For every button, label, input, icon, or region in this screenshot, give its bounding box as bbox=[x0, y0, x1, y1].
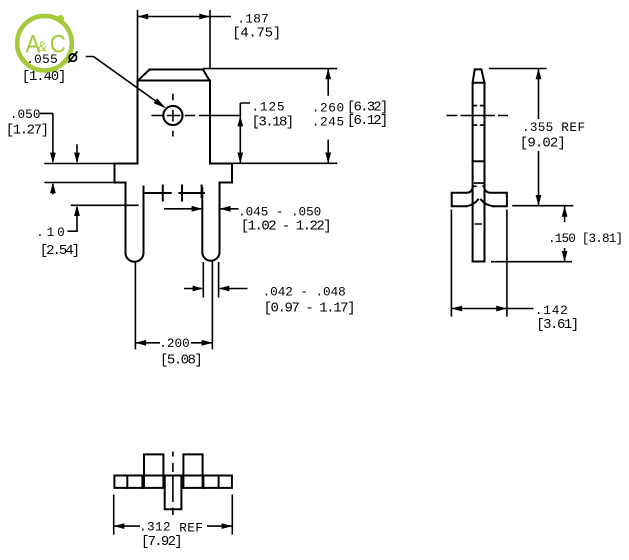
svg-text:.042 - .048: .042 - .048 bbox=[263, 285, 346, 300]
svg-text:.150 [3.81]: .150 [3.81] bbox=[548, 231, 622, 246]
side flange inner curves bbox=[467, 200, 493, 207]
svg-text:[2.54]: [2.54] bbox=[40, 243, 78, 259]
front view right leg bbox=[202, 183, 219, 261]
bend tick marks between legs bbox=[144, 186, 204, 201]
dim .150 line bbox=[564, 206, 566, 262]
arrowhead dim .187 right bbox=[199, 14, 210, 20]
dim .200 extensions bbox=[135, 262, 212, 350]
A&C logo bbox=[17, 15, 72, 71]
side body bend line bbox=[473, 160, 485, 162]
svg-text:.260: .260 bbox=[312, 100, 345, 115]
hole circle bbox=[163, 106, 182, 125]
arrowhead dim .200 left bbox=[135, 340, 146, 346]
arrowhead dim .045-.050 right bbox=[220, 206, 231, 212]
svg-text:REF: REF bbox=[561, 120, 585, 135]
svg-text:[0.97 - 1.17]: [0.97 - 1.17] bbox=[264, 301, 355, 317]
svg-text:.125: .125 bbox=[251, 99, 285, 114]
svg-text:.312: .312 bbox=[139, 520, 171, 535]
dim .187 extension lines bbox=[138, 10, 211, 80]
arrowhead dim .355 top bbox=[536, 69, 542, 80]
centerline through side view bbox=[447, 115, 509, 117]
arrowhead dim .150 top bbox=[562, 206, 568, 217]
arrowhead dim .142 left bbox=[451, 306, 462, 312]
bottom view centerline bbox=[172, 452, 174, 516]
arrowhead dim .050 bottom bbox=[50, 183, 56, 194]
arrowhead dim .142 right bbox=[496, 306, 507, 312]
svg-text:.187: .187 bbox=[237, 11, 269, 26]
dim .042-.048 lines bbox=[184, 288, 248, 290]
svg-text:.245: .245 bbox=[312, 114, 345, 129]
arrowhead dim .355 bottom bbox=[536, 195, 542, 206]
svg-text:.355: .355 bbox=[522, 120, 553, 135]
dim .260 vertical bbox=[327, 69, 329, 164]
svg-text:.050: .050 bbox=[10, 107, 41, 122]
dim .355 line bbox=[538, 69, 540, 206]
arrowhead dim .10 bottom bbox=[74, 205, 80, 216]
svg-text:[3.18]: [3.18] bbox=[252, 115, 293, 131]
bottom right tab bbox=[183, 454, 202, 488]
arrowhead dim .042-.048 right bbox=[219, 286, 230, 292]
dim .142 line bbox=[451, 308, 533, 310]
svg-text:[1.02 - 1.22]: [1.02 - 1.22] bbox=[241, 219, 330, 235]
dim .045-.050 bbox=[164, 208, 239, 210]
svg-text:&: & bbox=[38, 38, 48, 54]
svg-text:.200: .200 bbox=[159, 336, 189, 351]
svg-text:[5.08]: [5.08] bbox=[160, 352, 201, 368]
dim .150 bottom extension bbox=[491, 261, 572, 263]
leader .055 bbox=[86, 57, 164, 108]
dim .142 extensions bbox=[451, 210, 507, 317]
front view base outline bbox=[115, 164, 233, 183]
dim .125 bbox=[240, 103, 250, 163]
arrowhead dim .260 top bbox=[325, 69, 331, 80]
svg-text:.10: .10 bbox=[36, 225, 68, 240]
svg-text:[3.61]: [3.61] bbox=[536, 317, 578, 333]
arrowhead dim .187 left bbox=[138, 14, 149, 20]
dim .200 line bbox=[135, 342, 212, 344]
svg-text:[7.92]: [7.92] bbox=[141, 534, 181, 550]
BOTTOM VIEW bbox=[114, 454, 231, 509]
front view left leg bbox=[126, 183, 144, 262]
side body outline bbox=[473, 69, 485, 188]
arrowhead dim .045-.050 left bbox=[192, 206, 203, 212]
bottom center box bbox=[165, 476, 182, 510]
arrowhead dim .125 top bbox=[237, 116, 243, 127]
arrowhead dim .260 bottom bbox=[325, 153, 331, 164]
extension .260 top/bottom bbox=[203, 69, 337, 164]
svg-text:[6.12]: [6.12] bbox=[347, 113, 387, 129]
svg-text:C: C bbox=[50, 31, 66, 59]
diameter symbol for .055 bbox=[68, 51, 77, 62]
arrowhead leader .055 hole bbox=[154, 98, 166, 108]
arrowhead dim .150 bottom bbox=[562, 251, 568, 262]
arrowhead dim .312 right bbox=[222, 523, 233, 529]
dim .042-.048 extension bbox=[203, 262, 218, 298]
dim .050 leader and lines bbox=[40, 113, 53, 194]
arrowhead dim .050 top bbox=[50, 153, 56, 164]
svg-text:REF: REF bbox=[179, 521, 203, 536]
svg-text:[4.75]: [4.75] bbox=[232, 26, 281, 42]
arrowhead dim .200 right bbox=[202, 340, 213, 346]
dim .10 lines bbox=[68, 144, 78, 231]
side leg bbox=[473, 188, 485, 262]
svg-text:[1.27]: [1.27] bbox=[6, 122, 48, 138]
side body tick dashes bbox=[473, 106, 485, 224]
hole crosshair bbox=[152, 94, 241, 137]
SIDE VIEW bbox=[452, 69, 507, 261]
arrowhead dim .125 bottom bbox=[237, 153, 243, 164]
dim .355 extension bbox=[489, 69, 573, 206]
dim .312 line bbox=[114, 525, 233, 527]
dim .187 line bbox=[138, 16, 232, 18]
svg-text:.142: .142 bbox=[535, 303, 569, 318]
extension lines left bbox=[44, 164, 138, 206]
bottom left tab bbox=[144, 454, 163, 488]
dim .312 extensions bbox=[114, 495, 233, 535]
arrowhead dim .312 left bbox=[114, 523, 125, 529]
svg-text:[9.02]: [9.02] bbox=[520, 135, 565, 151]
front view tab outline bbox=[138, 70, 211, 164]
arrowhead dim .10 top bbox=[74, 153, 80, 164]
arrowhead dim .042-.048 left bbox=[193, 286, 204, 292]
strip dividers bbox=[127, 476, 218, 488]
logo circle bbox=[17, 16, 72, 71]
side flange fillets and top bbox=[452, 188, 507, 206]
bottom strip bbox=[114, 476, 231, 488]
logo dot bbox=[57, 15, 64, 22]
svg-text:.045 - .050: .045 - .050 bbox=[238, 204, 321, 219]
